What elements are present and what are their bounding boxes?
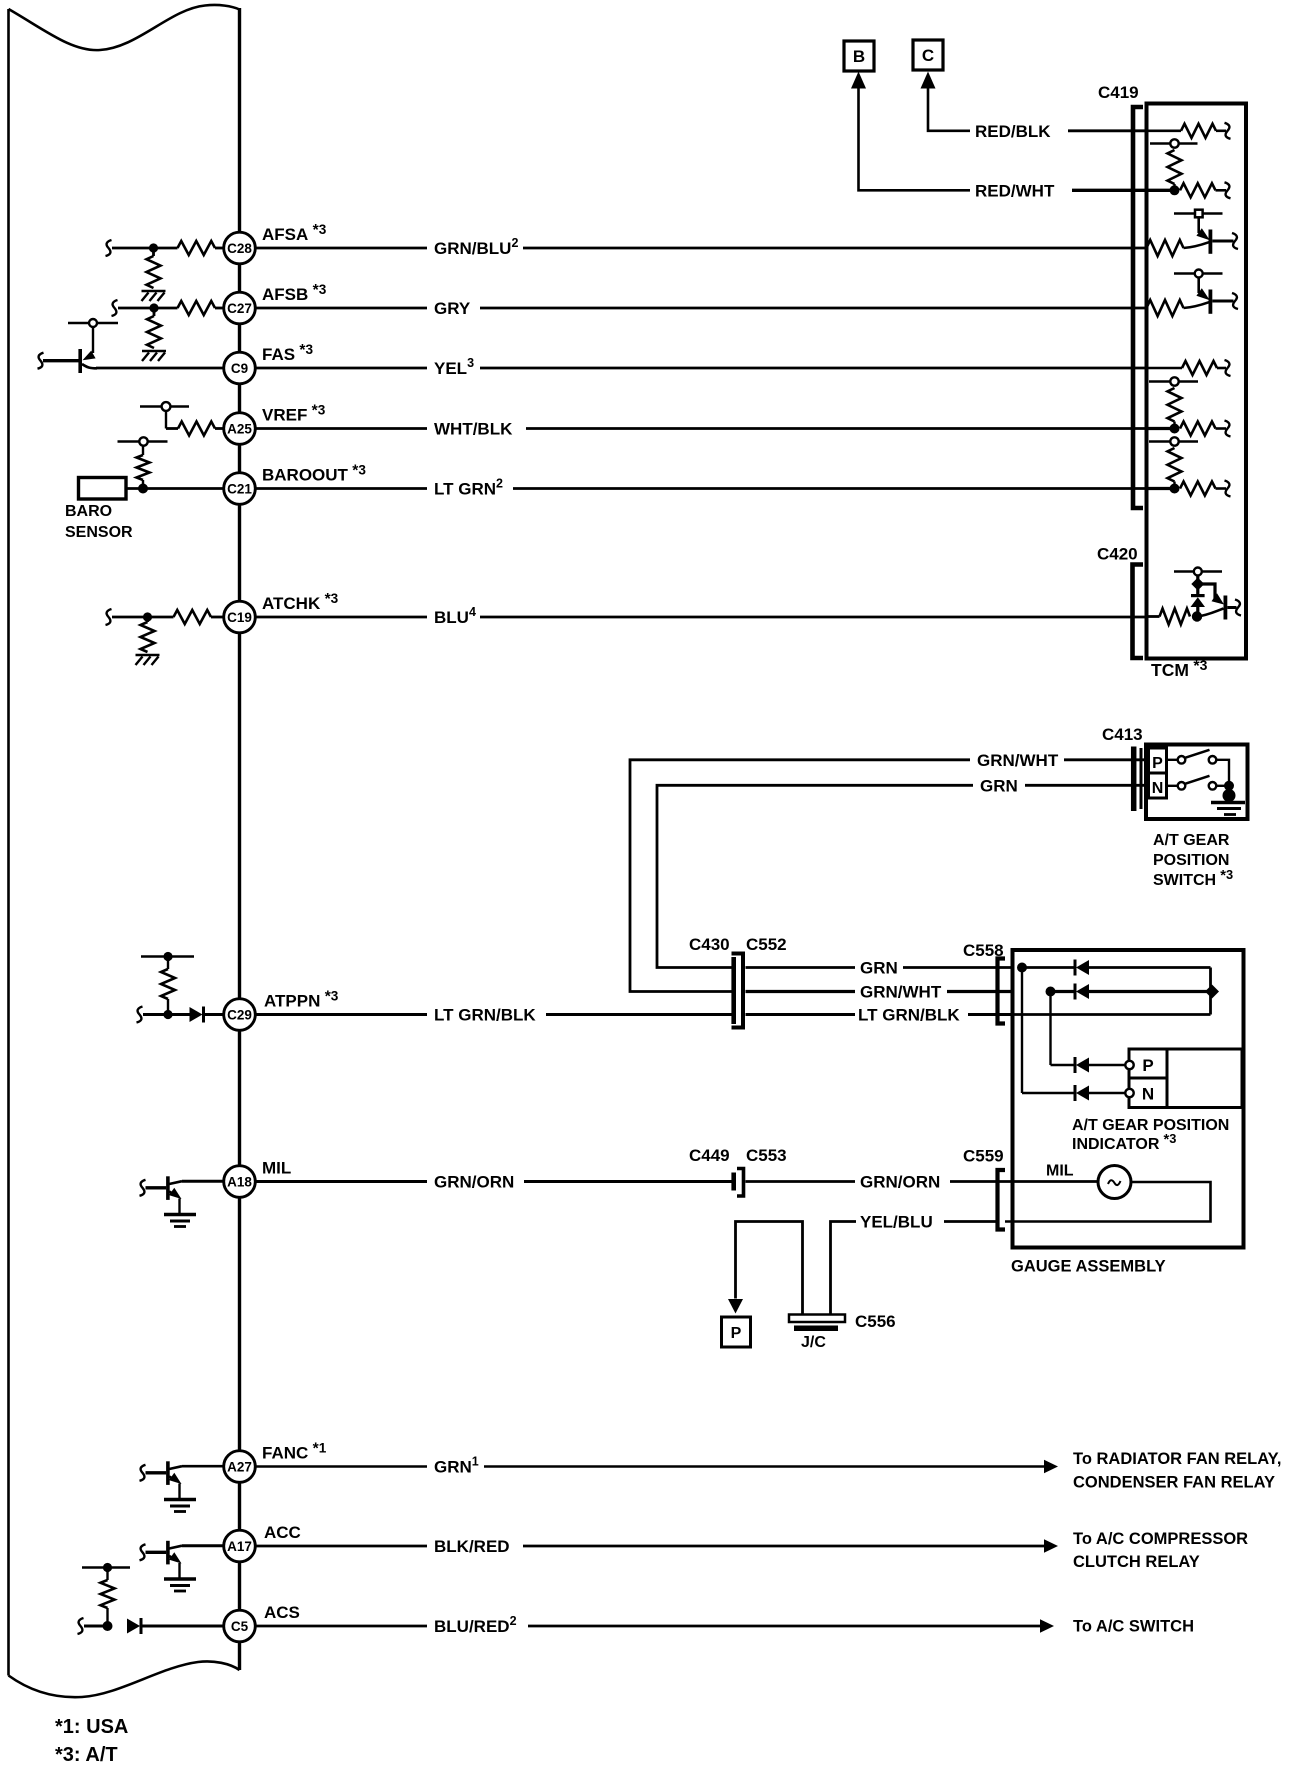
junction xyxy=(163,1010,172,1019)
diode xyxy=(1074,1085,1077,1101)
wire xyxy=(256,367,428,370)
transistor Q (FAS) base bar xyxy=(78,349,82,373)
arrowhead xyxy=(1212,593,1225,604)
indicator divider xyxy=(1166,1049,1169,1108)
transistor collector xyxy=(169,1546,182,1549)
wire xyxy=(523,1545,1046,1548)
arrowhead xyxy=(1044,1539,1058,1553)
wire xyxy=(480,616,1147,619)
wire (J/C branch) xyxy=(736,1222,803,1316)
svg-text:GRN: GRN xyxy=(980,776,1018,795)
transistor emitter xyxy=(82,364,97,368)
wire xyxy=(256,1545,428,1548)
wire ACS xyxy=(84,1625,103,1628)
wire xyxy=(1147,130,1182,133)
switch contact xyxy=(1209,756,1217,764)
svg-text:C558: C558 xyxy=(963,941,1004,960)
terminal xyxy=(1225,360,1231,376)
wire BAROOUT xyxy=(126,487,225,490)
svg-text:LT GRN/BLK: LT GRN/BLK xyxy=(858,1006,960,1025)
wire xyxy=(1064,758,1148,761)
terminal xyxy=(140,1544,146,1560)
wire (base lead) xyxy=(146,1471,167,1474)
ground xyxy=(1211,801,1245,804)
wire FAS xyxy=(96,367,225,370)
connector C558 bracket xyxy=(998,959,1006,1024)
wire xyxy=(546,1013,732,1016)
TCM box xyxy=(1147,104,1247,659)
wire xyxy=(944,1220,998,1223)
wire (rail) xyxy=(140,405,189,407)
svg-text:N: N xyxy=(1152,780,1164,797)
wire xyxy=(256,487,428,490)
junction xyxy=(1017,963,1027,973)
svg-text:A18: A18 xyxy=(227,1175,252,1190)
svg-text:*3: A/T: *3: A/T xyxy=(55,1744,118,1766)
junction xyxy=(1046,987,1056,997)
wire xyxy=(1049,992,1051,1066)
ground xyxy=(164,1213,196,1216)
wire (rail) xyxy=(1149,440,1198,442)
junction xyxy=(149,303,158,312)
svg-text:C556: C556 xyxy=(855,1312,896,1331)
N cell xyxy=(1149,773,1167,798)
svg-text:GRN: GRN xyxy=(860,959,898,978)
switch contact xyxy=(1178,756,1186,764)
ref box C xyxy=(913,40,943,70)
wire GRN xyxy=(746,966,856,969)
wire xyxy=(215,307,225,310)
junction (diamond) xyxy=(1205,985,1219,999)
supply rail xyxy=(141,955,194,958)
svg-text:BLK/RED: BLK/RED xyxy=(434,1537,510,1556)
wire xyxy=(211,616,224,619)
resistor (internal) xyxy=(1168,388,1182,422)
svg-text:MIL: MIL xyxy=(1046,1163,1074,1180)
wire LT GRN/BLK xyxy=(746,1013,856,1016)
wire xyxy=(146,617,149,622)
ground xyxy=(142,290,166,293)
wire (to transistor) xyxy=(1184,242,1210,248)
transistor collector xyxy=(169,1181,182,1184)
svg-text:ACS: ACS xyxy=(264,1603,300,1622)
junction (diamond) xyxy=(1191,578,1204,591)
wire xyxy=(256,1465,428,1468)
wire xyxy=(1089,1064,1126,1066)
ECM pin A17 xyxy=(224,1530,256,1562)
ref box P xyxy=(722,1317,751,1347)
wire (rail) xyxy=(118,440,168,442)
resistor (pull-down) xyxy=(147,256,161,288)
wire xyxy=(215,247,225,250)
wire (base branch) xyxy=(1198,584,1215,599)
wire xyxy=(1147,367,1183,370)
wire xyxy=(526,427,1147,430)
wire (collector top rail) xyxy=(1174,212,1223,215)
ECM pin C27 xyxy=(224,292,256,324)
terminal xyxy=(137,1007,143,1023)
wire xyxy=(1216,189,1227,192)
diode xyxy=(127,1619,140,1634)
terminal xyxy=(1225,481,1231,497)
wire (collector top rail) xyxy=(1174,272,1223,275)
transistor base bar xyxy=(1209,290,1213,314)
resistor xyxy=(1180,482,1216,496)
wire (collector) xyxy=(1197,218,1200,234)
svg-text:B: B xyxy=(853,47,865,66)
svg-text:C5: C5 xyxy=(231,1619,249,1634)
svg-text:BLU/RED2: BLU/RED2 xyxy=(434,1614,517,1636)
transistor emitter xyxy=(169,1192,176,1197)
wire xyxy=(1051,990,1075,993)
wire xyxy=(1021,968,1023,1094)
connector C449 pin bar xyxy=(731,1173,736,1191)
wire xyxy=(1173,422,1175,425)
ECM pin C28 xyxy=(224,232,256,264)
ECM torn bottom edge xyxy=(9,1661,240,1697)
wire xyxy=(968,1013,1014,1016)
wire GRN (C413) xyxy=(657,785,973,967)
svg-text:A27: A27 xyxy=(227,1460,252,1475)
wire RED/WHT riser xyxy=(859,88,971,190)
svg-text:MIL: MIL xyxy=(262,1159,291,1178)
wire FANC xyxy=(182,1465,224,1468)
junction xyxy=(1192,611,1202,621)
ECM pin A27 xyxy=(224,1451,256,1483)
wire xyxy=(1147,487,1171,490)
contact pin xyxy=(1125,1061,1133,1069)
ground xyxy=(164,1577,196,1580)
wire YEL/BLU xyxy=(831,1222,857,1316)
resistor (TCM internal) xyxy=(1147,240,1184,256)
resistor xyxy=(178,301,216,315)
svg-text:J/C: J/C xyxy=(801,1334,826,1351)
svg-text:C: C xyxy=(922,46,934,65)
junction xyxy=(103,1621,113,1631)
connector C553 bracket xyxy=(737,1169,744,1197)
zener diode cathode bar xyxy=(1191,594,1205,597)
wire xyxy=(1216,427,1227,430)
wire xyxy=(1022,966,1074,969)
wire xyxy=(1089,1092,1126,1094)
ECM pin C19 xyxy=(224,601,256,633)
collector arrowhead xyxy=(1196,228,1209,240)
transistor collector xyxy=(169,1466,182,1469)
connector C419 bracket xyxy=(1133,107,1143,508)
pin (round) xyxy=(1170,437,1178,445)
terminal xyxy=(78,1618,84,1634)
wire xyxy=(1147,427,1171,430)
wire GRN/ORN xyxy=(746,1180,856,1183)
wire xyxy=(1173,482,1175,485)
svg-text:POSITION: POSITION xyxy=(1153,852,1229,869)
junction xyxy=(149,243,158,252)
svg-text:LT GRN/BLK: LT GRN/BLK xyxy=(434,1006,536,1025)
svg-text:GRN/BLU2: GRN/BLU2 xyxy=(434,236,518,258)
terminal xyxy=(1225,421,1231,437)
diode xyxy=(190,1007,203,1022)
svg-text:ACC: ACC xyxy=(264,1523,301,1542)
svg-text:CONDENSER FAN RELAY: CONDENSER FAN RELAY xyxy=(1073,1474,1275,1492)
svg-text:To RADIATOR FAN RELAY,: To RADIATOR FAN RELAY, xyxy=(1073,1450,1281,1468)
wire (collector) xyxy=(1197,278,1200,294)
resistor xyxy=(1180,422,1216,436)
wire xyxy=(947,990,1014,993)
wire xyxy=(141,1625,225,1628)
switch contact xyxy=(1178,782,1186,790)
svg-text:P: P xyxy=(731,1325,742,1342)
ECM pin C21 xyxy=(224,473,256,505)
terminal xyxy=(1232,233,1238,249)
svg-text:A/T GEAR: A/T GEAR xyxy=(1153,832,1230,849)
wire xyxy=(1196,576,1199,581)
svg-text:C28: C28 xyxy=(227,241,252,256)
ground xyxy=(142,350,166,353)
wire xyxy=(92,327,94,353)
ground dome xyxy=(1223,789,1236,802)
wire xyxy=(1228,786,1231,792)
resistor (pull-down) xyxy=(147,316,161,348)
emitter arrowhead xyxy=(169,1552,182,1563)
junction connector J/C bar xyxy=(789,1315,845,1323)
switch blade N xyxy=(1185,776,1210,784)
junction xyxy=(1170,185,1180,195)
wire xyxy=(165,411,167,429)
connector C552 bracket xyxy=(732,954,744,1028)
svg-text:*1: USA: *1: USA xyxy=(55,1716,128,1738)
collector arrowhead xyxy=(83,351,96,361)
wire xyxy=(256,1625,428,1628)
ground xyxy=(164,1498,196,1501)
pin (round) xyxy=(1170,377,1178,385)
transistor emitter lead xyxy=(1212,300,1233,303)
terminal xyxy=(112,300,118,316)
wire xyxy=(142,446,144,456)
svg-text:CLUTCH RELAY: CLUTCH RELAY xyxy=(1073,1553,1200,1571)
wire (emitter to ground) xyxy=(178,1563,180,1578)
svg-text:GRN/ORN: GRN/ORN xyxy=(860,1173,940,1192)
MIL lamp xyxy=(1098,1166,1131,1199)
resistor (TCM internal) xyxy=(1147,300,1184,316)
wire xyxy=(167,957,169,970)
terminal xyxy=(106,240,112,256)
svg-text:C430: C430 xyxy=(689,935,730,954)
svg-text:GRN/WHT: GRN/WHT xyxy=(977,751,1059,770)
ECM pin C9 xyxy=(224,352,256,384)
junction xyxy=(1224,781,1234,791)
wire xyxy=(106,1568,108,1581)
wire xyxy=(1147,615,1160,618)
svg-text:C19: C19 xyxy=(227,610,252,625)
resistor (internal) xyxy=(1168,150,1182,184)
resistor (internal) xyxy=(1168,448,1182,482)
svg-text:C21: C21 xyxy=(227,482,252,497)
junction xyxy=(163,952,172,961)
wire (base lead) xyxy=(146,1186,167,1189)
wire xyxy=(1196,607,1199,612)
wire xyxy=(1089,990,1211,993)
wire xyxy=(1014,1013,1211,1016)
connector C413 pin bar xyxy=(1131,747,1137,812)
wire xyxy=(256,427,428,430)
wire ATPPN xyxy=(143,1013,190,1016)
contact pin xyxy=(1125,1089,1133,1097)
svg-text:GAUGE ASSEMBLY: GAUGE ASSEMBLY xyxy=(1011,1258,1166,1276)
junction xyxy=(103,1563,112,1572)
svg-text:GRN/WHT: GRN/WHT xyxy=(860,983,942,1002)
svg-text:P: P xyxy=(1142,1056,1153,1075)
resistor xyxy=(137,455,150,480)
pin (round) xyxy=(1195,270,1203,278)
pin (round) xyxy=(1170,139,1178,147)
arrow to C xyxy=(921,72,936,89)
resistor xyxy=(1160,609,1191,625)
ECM pin A25 xyxy=(224,413,256,445)
wire (emitter to ground) xyxy=(178,1484,180,1499)
terminal xyxy=(1235,600,1241,616)
wire xyxy=(142,480,144,489)
connector C413 secondary bar xyxy=(1140,748,1143,809)
wire xyxy=(480,367,1147,370)
wire ATCHK xyxy=(112,616,174,619)
svg-text:C413: C413 xyxy=(1102,725,1143,744)
pin (round) xyxy=(162,402,171,411)
transistor base bar xyxy=(166,1541,170,1565)
wire xyxy=(903,966,1014,969)
BARO sensor box xyxy=(79,478,127,500)
wire xyxy=(1022,1092,1074,1094)
wire (to transistor) xyxy=(1184,302,1210,308)
wire xyxy=(1217,760,1230,781)
transistor base bar xyxy=(166,1461,170,1485)
arrow to P xyxy=(728,1299,743,1314)
A/T gear position switch box xyxy=(1146,745,1248,820)
svg-text:A17: A17 xyxy=(227,1539,252,1554)
pin (square) xyxy=(1195,210,1203,218)
junction xyxy=(138,484,148,494)
terminal xyxy=(1232,293,1238,309)
collector arrowhead xyxy=(1196,288,1209,300)
arrow to B xyxy=(851,72,866,89)
terminal xyxy=(140,1180,146,1196)
terminal xyxy=(1225,182,1231,198)
wire AFSB xyxy=(118,307,178,310)
wire xyxy=(1196,589,1199,596)
junction xyxy=(1170,484,1180,494)
svg-text:C449: C449 xyxy=(689,1146,730,1165)
wire GRN/WHT (C413) xyxy=(630,760,970,992)
svg-text:A25: A25 xyxy=(227,422,252,437)
connector C559 bracket xyxy=(998,1170,1006,1230)
resistor xyxy=(178,422,215,436)
supply rail xyxy=(82,1566,130,1569)
resistor xyxy=(174,610,212,624)
wire (base lead) xyxy=(43,359,79,362)
wire (rail) xyxy=(1149,380,1198,382)
svg-text:C29: C29 xyxy=(227,1008,252,1023)
svg-text:C552: C552 xyxy=(746,935,787,954)
wire xyxy=(528,1625,1042,1628)
resistor xyxy=(1181,124,1216,138)
svg-text:C9: C9 xyxy=(231,361,248,376)
ECM left border xyxy=(7,9,10,1676)
ground xyxy=(136,654,160,657)
diode xyxy=(1074,984,1077,1000)
resistor xyxy=(1182,361,1217,375)
ECM pin C29 xyxy=(224,999,256,1031)
transistor base bar xyxy=(1209,230,1213,254)
wire xyxy=(1014,1180,1098,1183)
svg-text:C559: C559 xyxy=(963,1147,1004,1166)
diode xyxy=(1074,1057,1077,1073)
wire (collector rail) xyxy=(68,322,118,324)
wire RED/WHT xyxy=(1072,189,1147,192)
transistor base bar xyxy=(1224,596,1228,620)
svg-text:To A/C SWITCH: To A/C SWITCH xyxy=(1073,1618,1194,1636)
ref box B xyxy=(844,41,874,71)
wire (rail) xyxy=(1150,142,1198,144)
wire xyxy=(513,487,1147,490)
svg-text:BARO: BARO xyxy=(65,503,112,520)
switch contact xyxy=(1209,782,1217,790)
wire MIL xyxy=(182,1180,224,1183)
emitter arrowhead xyxy=(169,1473,182,1484)
A/T gear position indicator box xyxy=(1129,1049,1242,1108)
transistor base bar xyxy=(166,1176,170,1200)
wire xyxy=(166,427,178,430)
terminal xyxy=(38,353,44,369)
resistor (pull-down) xyxy=(141,622,155,652)
wire xyxy=(1167,759,1178,761)
wire xyxy=(950,1180,1014,1183)
pin (round) xyxy=(89,319,97,327)
transistor emitter lead xyxy=(1227,606,1236,609)
wire RED/BLK xyxy=(1068,129,1147,132)
connector C420 bracket xyxy=(1133,565,1144,659)
emitter arrowhead xyxy=(169,1188,182,1199)
wire xyxy=(1025,784,1148,787)
wire xyxy=(256,307,428,310)
wire xyxy=(167,999,169,1015)
terminal xyxy=(140,1465,146,1481)
svg-text:To A/C COMPRESSOR: To A/C COMPRESSOR xyxy=(1073,1530,1248,1548)
arrowhead xyxy=(1044,1460,1058,1474)
resistor xyxy=(1180,183,1216,197)
wire RED/BLK riser xyxy=(928,88,970,131)
wire (emitter to ground) xyxy=(178,1199,180,1214)
svg-text:RED/WHT: RED/WHT xyxy=(975,181,1055,200)
transistor emitter lead xyxy=(1212,240,1233,243)
indicator divider xyxy=(1129,1077,1167,1080)
wire xyxy=(1216,487,1227,490)
svg-text:C27: C27 xyxy=(227,301,252,316)
wire (to transistor) xyxy=(1197,609,1224,617)
wire xyxy=(256,616,428,619)
wire xyxy=(1216,130,1226,133)
terminal xyxy=(106,609,112,625)
svg-text:WHT/BLK: WHT/BLK xyxy=(434,420,513,439)
junction xyxy=(1170,424,1180,434)
P cell xyxy=(1149,748,1167,773)
terminal xyxy=(1225,123,1231,139)
wire xyxy=(524,1180,732,1183)
wire xyxy=(484,1465,1046,1468)
wire xyxy=(1217,367,1226,370)
transistor emitter xyxy=(169,1477,176,1482)
ECM pin A18 xyxy=(224,1166,256,1198)
junction xyxy=(143,612,152,621)
transistor emitter xyxy=(169,1556,176,1561)
